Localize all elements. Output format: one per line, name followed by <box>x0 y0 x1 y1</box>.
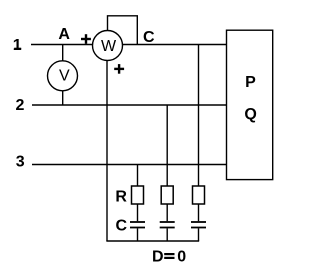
voltmeter V <box>48 61 78 91</box>
load box PQ <box>227 30 273 179</box>
capacitor C branch 1 <box>130 222 145 228</box>
resistor R branch 2 <box>161 186 173 204</box>
wire R to C branch 2 <box>166 204 168 221</box>
wattmeter current-coil loop <box>108 16 138 45</box>
svg-text:Q: Q <box>244 106 256 123</box>
wire branch 3 line1 to R <box>198 45 200 187</box>
wire line 1 <box>31 44 227 46</box>
svg-text:2: 2 <box>16 97 25 114</box>
svg-text:D: D <box>152 248 164 265</box>
svg-text:C: C <box>143 29 155 46</box>
wire C to rail branch 3 <box>198 228 200 241</box>
wire C to rail branch 2 <box>166 228 168 241</box>
capacitor C branch 3 <box>191 222 206 228</box>
svg-text:3: 3 <box>16 154 25 171</box>
wire line 3 <box>32 164 227 166</box>
node 1 label <box>13 37 22 54</box>
wire R to C branch 3 <box>198 204 200 221</box>
capacitor C branch 2 <box>160 222 175 228</box>
label + (wattmeter voltage polarity) <box>114 64 124 74</box>
label + (wattmeter current polarity) <box>81 34 91 44</box>
wire branch 2 line2 to R <box>166 105 168 186</box>
wire wattmeter voltage lead down to D <box>106 45 108 241</box>
svg-text:W: W <box>101 38 117 55</box>
wire branch 1 line3 to R <box>137 165 139 187</box>
svg-text:V: V <box>59 68 70 85</box>
wire R to C branch 1 <box>137 204 139 221</box>
resistor R branch 1 <box>132 186 144 204</box>
svg-text:P: P <box>245 74 256 91</box>
wire voltmeter branch A to line 2 <box>62 45 64 106</box>
svg-text:0: 0 <box>177 248 186 265</box>
wire C to rail branch 1 <box>137 228 139 241</box>
wire neutral rail D <box>106 240 199 242</box>
svg-text:R: R <box>115 188 127 205</box>
label D=0 <box>152 248 186 265</box>
svg-text:C: C <box>116 218 128 235</box>
wire line 2 <box>32 104 227 106</box>
wattmeter W <box>93 31 123 61</box>
svg-text:1: 1 <box>13 37 22 54</box>
svg-text:A: A <box>58 26 70 43</box>
resistor R branch 3 <box>193 186 205 204</box>
